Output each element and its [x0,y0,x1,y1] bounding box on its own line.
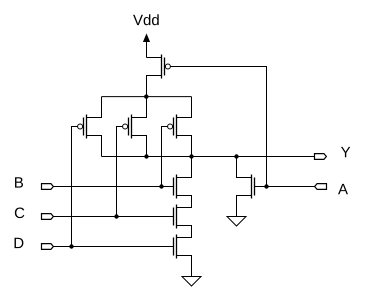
transistor Q8 NMOS (gate A, mirrored) [252,175,255,199]
wire Q7 source to ground [177,256,192,277]
wire Q8 drain vertical [237,157,252,178]
wire B line [53,186,173,188]
pin D [42,244,54,250]
wire Q4 gate to B line [162,127,168,187]
label B [15,177,23,187]
label Vdd [133,14,159,25]
transistor Q4 PMOS (gate B) [168,115,177,139]
transistor Q2 PMOS (gate D) [78,115,87,139]
wire Q3 source vertical [132,97,147,118]
wire C line [53,216,173,218]
junction dot Y rail x146 [144,154,148,158]
wire Q5 drain vertical [177,157,192,178]
transistor Q6 NMOS (gate C) [174,205,177,229]
wire Q8 source to ground [237,196,252,217]
label Y [341,147,350,157]
label C [15,208,25,219]
junction dot C line [114,214,118,218]
wire Q4 source vertical [177,97,192,118]
wire Q1 drain lead [147,76,162,97]
wire Q2 source vertical [87,97,102,118]
wire top rail (Q1 drain to PMOS sources) [102,96,192,98]
transistor Q5 NMOS (gate B) [174,175,177,199]
junction dot D line [69,244,73,248]
pin A [315,184,327,190]
wire Q5 source to Q6 drain [177,196,192,208]
wire Q8 gate to A pin [255,186,315,188]
wire Q4 drain [177,136,192,157]
ground symbol (Q8) [227,217,246,227]
wire output rail Y [102,156,315,158]
junction dot Y rail x236 [234,154,238,158]
transistor Q7 NMOS (gate D) [174,235,177,259]
wire Q6 source to Q7 drain [177,226,192,238]
label D [15,238,24,248]
transistor Q1 PMOS (gate A, mirrored) [162,55,171,79]
junction dot Y rail x191 [189,154,193,158]
junction dot node A [264,184,268,188]
wire Q2 drain [87,136,102,157]
wire Q1 gate to node A vertical [170,67,266,187]
wire Vdd to Q1 source [147,57,162,59]
junction dot B line [159,184,163,188]
wire Q2 gate to D line [72,127,78,247]
transistor Q3 PMOS (gate C) [123,115,132,139]
pin B [42,184,54,190]
pin C [42,214,54,220]
power symbol Vdd arrow [143,33,150,57]
wire Q3 gate to C line [117,127,123,217]
pin Y [315,154,327,160]
wire D line [53,246,173,248]
ground symbol (NMOS stack) [182,277,201,287]
junction dot top rail x146 [144,94,148,98]
wire Q3 drain [132,136,147,157]
label A [338,184,348,194]
